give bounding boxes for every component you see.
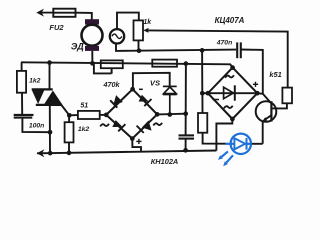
wire W1 vertical — [201, 50, 203, 93]
svg-text:1k2: 1k2 — [29, 77, 41, 84]
svg-text:k51: k51 — [269, 70, 281, 79]
junction dot C1 triac — [48, 130, 53, 135]
fuse FU2 — [53, 9, 75, 17]
wire rail to R6 — [21, 62, 23, 71]
node dots bridge VD1 — [104, 87, 160, 141]
top rail — [21, 62, 233, 67]
svg-text:ЭД: ЭД — [71, 42, 84, 52]
capacitor C2 470n — [237, 42, 241, 58]
transistor VT1 body — [256, 101, 277, 122]
svg-text:КН102А: КН102А — [151, 157, 179, 166]
wire gate node to R4 — [69, 114, 78, 116]
svg-text:FU2: FU2 — [49, 23, 64, 32]
wire VD1 left to R4 — [100, 114, 107, 116]
wire R6 to C1 — [21, 93, 23, 115]
wire AC bottom / line A — [116, 43, 236, 51]
label ~ bottom VD2 — [224, 106, 233, 109]
junction dot triac top — [47, 60, 52, 65]
junction dot R3 right — [184, 61, 189, 66]
transistor VT1 emitter — [262, 115, 271, 121]
wire C2 right to bridge — [241, 50, 263, 94]
mains arrow bottom — [37, 149, 45, 157]
junction dot gate — [67, 113, 72, 118]
junction dot C3 rail — [183, 148, 188, 153]
pot arrow R1 — [143, 28, 148, 33]
transistor VT1 collector — [271, 103, 287, 108]
wire C1 to triac line — [22, 118, 50, 133]
wire bridge top to VS — [133, 73, 170, 89]
label ~ top VD2 — [225, 75, 234, 78]
wire C3 bottom to rail — [185, 139, 187, 151]
wire gate to R5 — [68, 115, 70, 122]
wire AC top to R1 — [117, 13, 139, 30]
svg-text:470k: 470k — [103, 80, 121, 89]
LED HL1 — [226, 134, 252, 154]
AC source G1 — [110, 29, 124, 43]
capacitor C3 — [179, 135, 195, 138]
LED light arrows — [218, 151, 233, 166]
junction dot R5 rail — [67, 151, 72, 156]
svg-text:470n: 470n — [216, 40, 233, 47]
wire LED right — [251, 143, 263, 145]
resistor R1 1k — [134, 20, 144, 40]
label minus VD1 — [139, 88, 143, 90]
wire fuse to motor — [76, 13, 92, 20]
bridge VD2 internal diode — [224, 85, 235, 100]
resistor R3 — [152, 60, 177, 67]
node dots bridge VD2 — [206, 65, 260, 121]
wire VD1 bottom to rail — [132, 139, 141, 152]
motor M1 body — [82, 25, 103, 46]
resistor R5 1k2 — [65, 122, 74, 142]
svg-text:1k2: 1k2 — [78, 126, 90, 133]
junction dot triac rail — [48, 151, 53, 156]
wire W1 to R7 — [201, 93, 203, 113]
resistor R4 51 — [78, 111, 100, 119]
bottom rail — [37, 151, 216, 154]
wire R7 to LED — [203, 133, 226, 144]
svg-text:51: 51 — [80, 103, 88, 110]
resistor R8 k51 — [282, 88, 292, 104]
bridge VD1 diode bottom-left — [112, 120, 125, 131]
svg-text:КЦ407А: КЦ407А — [215, 16, 245, 25]
wire triac bottom — [49, 105, 51, 153]
wire R5 to rail — [68, 142, 70, 153]
motor M1 brush top — [85, 19, 99, 24]
resistor R7 — [198, 113, 207, 133]
junction dot R1 bottom — [137, 48, 142, 53]
wire VD1 right vertex to C3 — [157, 113, 186, 116]
label minus VD2 — [213, 99, 220, 101]
junction dot VD2 left — [200, 91, 205, 96]
capacitor C1 100n — [14, 115, 34, 118]
wire rail to C3 (vertical x186) — [185, 64, 187, 114]
bridge VD2 diamond — [208, 68, 257, 119]
wire motor to rail — [91, 51, 93, 63]
wiper arrow R2 — [111, 68, 113, 73]
bridge VD1 diode bottom-right — [137, 121, 152, 133]
dinistor VS КН102А — [163, 86, 177, 114]
triac VS1 — [32, 89, 63, 105]
wire emitter down — [262, 121, 264, 144]
wire VD2 bottom left — [216, 119, 232, 151]
base wire VD2 to VT1 — [257, 93, 271, 103]
wire R1 arrow to right edge (KЦ407А net) — [149, 30, 288, 87]
junction dot C3 top — [183, 111, 188, 116]
bridge VD1 diamond — [106, 89, 157, 138]
wire R1 bottom — [138, 40, 140, 50]
svg-text:100n: 100n — [29, 123, 45, 130]
bridge VD1 diode top-right — [139, 95, 152, 106]
label ~ right VD1 — [153, 123, 162, 126]
motor M1 brush bottom — [85, 46, 99, 51]
label plus VD1 — [136, 139, 141, 144]
label plus VD2 — [253, 82, 258, 87]
resistor R6 1k2 left — [17, 71, 26, 93]
svg-text:1k: 1k — [143, 19, 152, 26]
label ~ left VD1 — [100, 124, 109, 127]
junction dot motor bottom — [90, 61, 95, 66]
resistor R2 470k — [101, 60, 123, 68]
junction dot node W1 — [200, 48, 205, 53]
wire triac top — [49, 63, 51, 90]
mains arrow top — [36, 9, 53, 17]
wiper wire R2 — [92, 63, 111, 73]
bridge VD1 diode top-left — [110, 95, 123, 108]
svg-text:VS: VS — [150, 78, 160, 87]
wire VD2 left to R7 — [202, 92, 208, 94]
triac gate wire — [62, 106, 70, 116]
junction dot VS bottom — [167, 112, 172, 117]
bridge VD2 axis wire — [208, 92, 257, 94]
transistor VT1 base bar — [270, 101, 272, 121]
